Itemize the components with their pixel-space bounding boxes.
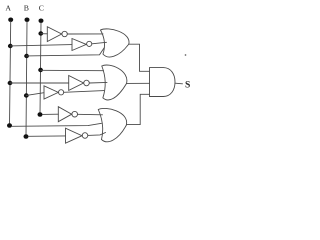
junction C2	[38, 68, 43, 72]
inverter NOT4	[44, 86, 58, 99]
junction C3 (end of C bus)	[38, 112, 43, 117]
wire NOT3 output to OR2 middle input	[89, 81, 107, 84]
wire A2 to NOT3 input	[10, 82, 69, 84]
wire C1 to NOT1 input	[41, 33, 48, 35]
inverter NOT6	[66, 128, 83, 143]
junction A3 (end of A bus)	[7, 123, 12, 128]
junction B2	[24, 93, 29, 97]
wire AND output to S	[175, 82, 183, 85]
wire OR3 output to AND bottom input	[126, 94, 149, 124]
input terminal dot B	[25, 18, 30, 23]
wire OR1 output to AND top input	[129, 44, 150, 71]
wire NOT2 output to OR1 middle input	[92, 42, 107, 44]
inverter NOT5	[58, 107, 71, 122]
wire vertical bus B	[26, 22, 27, 137]
inverter NOT3	[69, 76, 84, 91]
input terminal dot C	[39, 19, 44, 24]
junction C1	[38, 31, 43, 35]
wire vertical bus A	[10, 22, 11, 126]
inverter NOT1	[47, 27, 61, 42]
speckle artifact	[185, 54, 186, 55]
svg-text:S: S	[185, 80, 190, 90]
wire A3 to OR3 middle input	[12, 123, 102, 126]
wire C2 to OR2 top input	[41, 69, 104, 71]
wire OR2 output to AND middle input	[127, 82, 150, 84]
junction A2	[8, 81, 13, 85]
wire NOT1 output to OR1 top input	[67, 33, 103, 35]
or-gate OR3	[98, 108, 126, 125]
wire vertical bus C	[40, 23, 41, 115]
wire C3 to NOT5 input	[43, 113, 59, 115]
svg-text:B: B	[24, 4, 29, 13]
input terminal dot A	[8, 18, 13, 23]
svg-text:A: A	[5, 4, 11, 13]
junction A1	[8, 44, 13, 48]
wire NOT6 output to OR3 bottom input	[88, 133, 106, 136]
wire NOT5 output to OR3 top input	[78, 113, 103, 116]
wire B2 to NOT4 input	[26, 93, 44, 96]
or-gate OR1	[101, 29, 130, 44]
wire NOT4 output to OR2 bottom input	[64, 91, 104, 93]
inverter NOT2	[72, 39, 86, 51]
wire B3 to NOT6 input	[28, 135, 65, 137]
svg-text:C: C	[39, 4, 44, 13]
junction B3 (end of B bus)	[24, 134, 29, 139]
and-gate U1	[150, 68, 176, 97]
or-gate OR2	[102, 65, 127, 83]
junction B1	[24, 54, 29, 58]
wire B1 to OR1 bottom input	[27, 48, 105, 56]
wire A1 to NOT2 input	[10, 45, 72, 46]
